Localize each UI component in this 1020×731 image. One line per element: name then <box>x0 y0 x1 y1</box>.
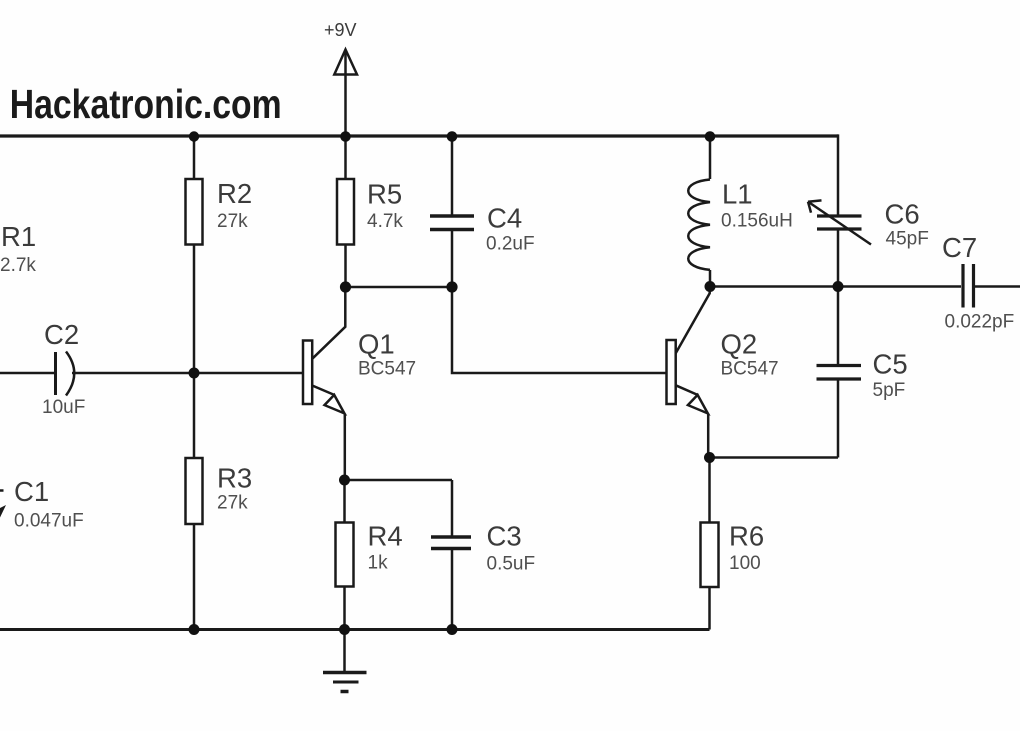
power +9V arrow <box>334 50 357 137</box>
capacitor C1 partial <box>0 489 4 492</box>
inductor L1 <box>688 136 710 287</box>
resistor R3 <box>186 458 203 524</box>
svg-text:L1: L1 <box>722 179 753 210</box>
svg-text:C2: C2 <box>44 319 79 350</box>
node dot rail C3 <box>447 624 458 635</box>
svg-text:100: 100 <box>729 553 761 574</box>
transistor Q1 <box>303 287 345 480</box>
svg-text:C3: C3 <box>487 521 522 552</box>
node dot C6 bottom <box>833 281 844 292</box>
svg-text:0.156uH: 0.156uH <box>721 211 793 232</box>
wire C4 node to Q2 base <box>452 287 667 373</box>
capacitor C5 <box>817 366 862 380</box>
node dot R2 top <box>189 131 199 141</box>
capacitor C6 variable <box>808 200 871 244</box>
node dot R5 top <box>340 131 351 142</box>
wire C6 branch <box>837 134 840 286</box>
transistor Q2 <box>667 287 710 458</box>
svg-text:45pF: 45pF <box>886 229 929 250</box>
node dot rail R4 <box>339 624 350 635</box>
svg-text:Q2: Q2 <box>721 329 758 360</box>
svg-text:5pF: 5pF <box>873 380 906 401</box>
node dot Q2 emitter <box>704 452 715 463</box>
svg-text:R3: R3 <box>217 463 252 494</box>
resistor R5 <box>337 179 354 245</box>
wire L1 to C6 node <box>710 285 838 288</box>
svg-text:BC547: BC547 <box>358 359 416 380</box>
wire R4 branch <box>343 480 346 630</box>
wire Q1 emitter node <box>345 479 453 482</box>
svg-text:R2: R2 <box>217 178 252 209</box>
svg-text:27k: 27k <box>217 493 248 514</box>
svg-text:0.022pF: 0.022pF <box>945 312 1015 333</box>
wire R6 branch <box>708 458 711 630</box>
svg-text:0.2uF: 0.2uF <box>486 234 535 255</box>
node dot L1 bottom <box>705 281 716 292</box>
capacitor C1 arrow fragment <box>0 505 6 518</box>
node dot Q1 base <box>189 368 200 379</box>
capacitor C7 <box>963 264 974 308</box>
svg-text:R6: R6 <box>729 521 764 552</box>
resistor R6 <box>701 523 719 588</box>
node dot L1 top <box>705 131 716 142</box>
wire Q2 emitter to C5 <box>710 456 839 459</box>
svg-text:4.7k: 4.7k <box>367 211 403 232</box>
svg-text:1k: 1k <box>368 553 389 574</box>
wire C7 to edge <box>975 285 1020 288</box>
svg-text:27k: 27k <box>217 211 248 232</box>
node dot Q1 emitter <box>339 475 350 486</box>
node dot C4 top <box>447 131 458 142</box>
capacitor C4 <box>430 216 474 230</box>
wire node Q1 collector to C4 <box>346 286 453 289</box>
svg-text:C5: C5 <box>873 349 908 380</box>
svg-text:C7: C7 <box>942 232 977 263</box>
wire R3 branch <box>193 373 196 630</box>
wire bottom rail <box>0 628 710 631</box>
svg-text:C1: C1 <box>14 476 49 507</box>
svg-text:Hackatronic.com: Hackatronic.com <box>10 81 282 127</box>
svg-text:0.5uF: 0.5uF <box>487 554 536 575</box>
svg-text:R4: R4 <box>368 521 403 552</box>
svg-text:Q1: Q1 <box>358 329 395 360</box>
svg-text:C4: C4 <box>487 203 522 234</box>
node dot C4 bottom <box>446 281 457 292</box>
wire R2 branch <box>193 136 196 373</box>
svg-text:BC547: BC547 <box>721 359 779 380</box>
capacitor C3 <box>431 537 471 549</box>
svg-text:2.7k: 2.7k <box>0 255 36 276</box>
resistor R4 <box>336 523 354 587</box>
wire C3 branch <box>451 480 454 630</box>
svg-text:C6: C6 <box>885 199 920 230</box>
wire R5 branch <box>344 136 347 287</box>
node dot rail R3 <box>189 624 200 635</box>
svg-text:0.047uF: 0.047uF <box>14 511 84 532</box>
wire C5 branch <box>837 287 840 458</box>
capacitor C2 <box>0 352 194 396</box>
ground <box>323 630 367 692</box>
resistor R2 <box>186 179 203 245</box>
node dot Q1 collector <box>340 281 351 292</box>
wire to C7 <box>838 285 961 288</box>
wire Q1 base <box>194 372 303 375</box>
svg-text:R5: R5 <box>367 179 402 210</box>
wire C4 branch <box>451 136 454 287</box>
svg-text:+9V: +9V <box>324 20 357 40</box>
svg-text:R1: R1 <box>1 221 36 252</box>
svg-text:10uF: 10uF <box>42 397 85 418</box>
wire top rail <box>0 134 838 137</box>
